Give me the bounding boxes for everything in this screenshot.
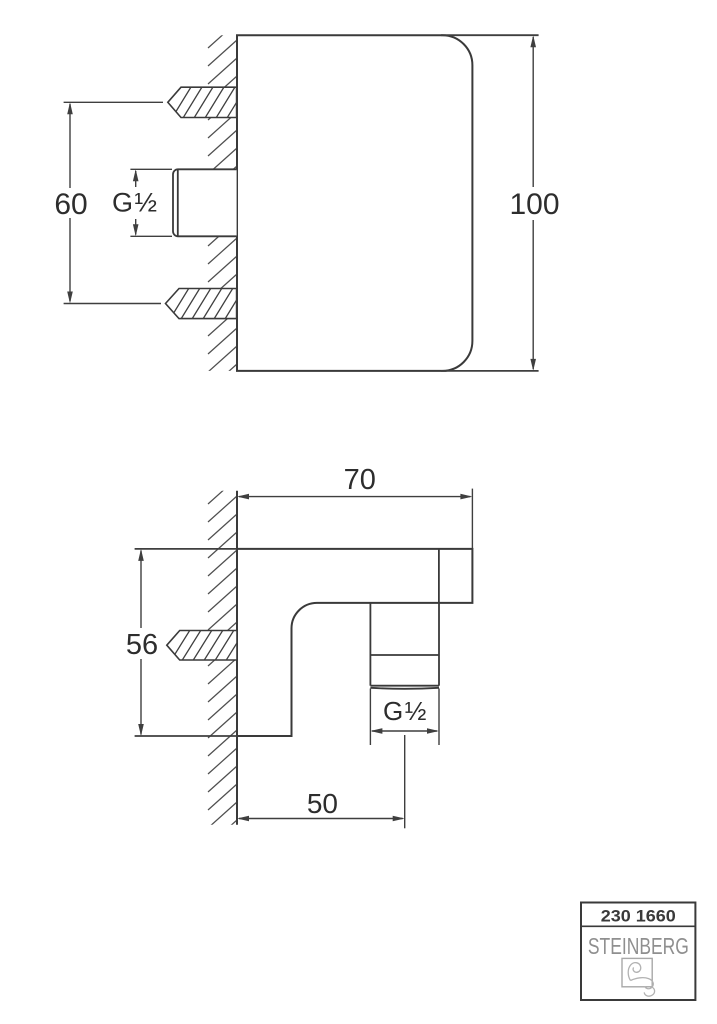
dimension G1/2 (side view) xyxy=(370,689,439,746)
dimension 60 xyxy=(64,102,163,303)
svg-text:G½: G½ xyxy=(383,696,428,726)
title block divider xyxy=(581,925,695,927)
svg-text:230 1660: 230 1660 xyxy=(601,907,676,926)
logo swirl xyxy=(628,963,654,997)
cover plate separator line (side view) xyxy=(438,549,440,603)
svg-text:100: 100 xyxy=(509,188,559,221)
svg-text:70: 70 xyxy=(344,464,376,496)
dimension 50 xyxy=(239,735,405,828)
title block frame xyxy=(581,903,695,1001)
elbow body outline (side view) xyxy=(237,549,472,736)
wall face line (front view) xyxy=(236,35,238,371)
top mounting screw xyxy=(168,87,246,118)
svg-text:50: 50 xyxy=(307,788,338,819)
mounting plate (front view) xyxy=(237,35,472,371)
svg-text:G½: G½ xyxy=(112,188,159,218)
mounting screw (side view) xyxy=(167,630,245,661)
G1/2 inlet connector (front view) xyxy=(173,169,237,236)
wall face line (side view) xyxy=(236,491,238,825)
svg-text:60: 60 xyxy=(54,188,87,221)
wall hatching (side view) xyxy=(208,478,237,846)
dimension 100 xyxy=(441,35,539,371)
svg-text:56: 56 xyxy=(126,629,158,661)
wall hatching (front view) xyxy=(208,22,237,408)
logo square xyxy=(622,958,652,986)
bottom mounting screw xyxy=(166,288,245,319)
outlet pipe (side view) xyxy=(370,603,439,689)
dimension G1/2 (front view) xyxy=(130,169,172,236)
dimension 56 xyxy=(135,549,237,736)
dimension 70 xyxy=(239,489,472,549)
svg-text:STEINBERG: STEINBERG xyxy=(588,933,689,959)
